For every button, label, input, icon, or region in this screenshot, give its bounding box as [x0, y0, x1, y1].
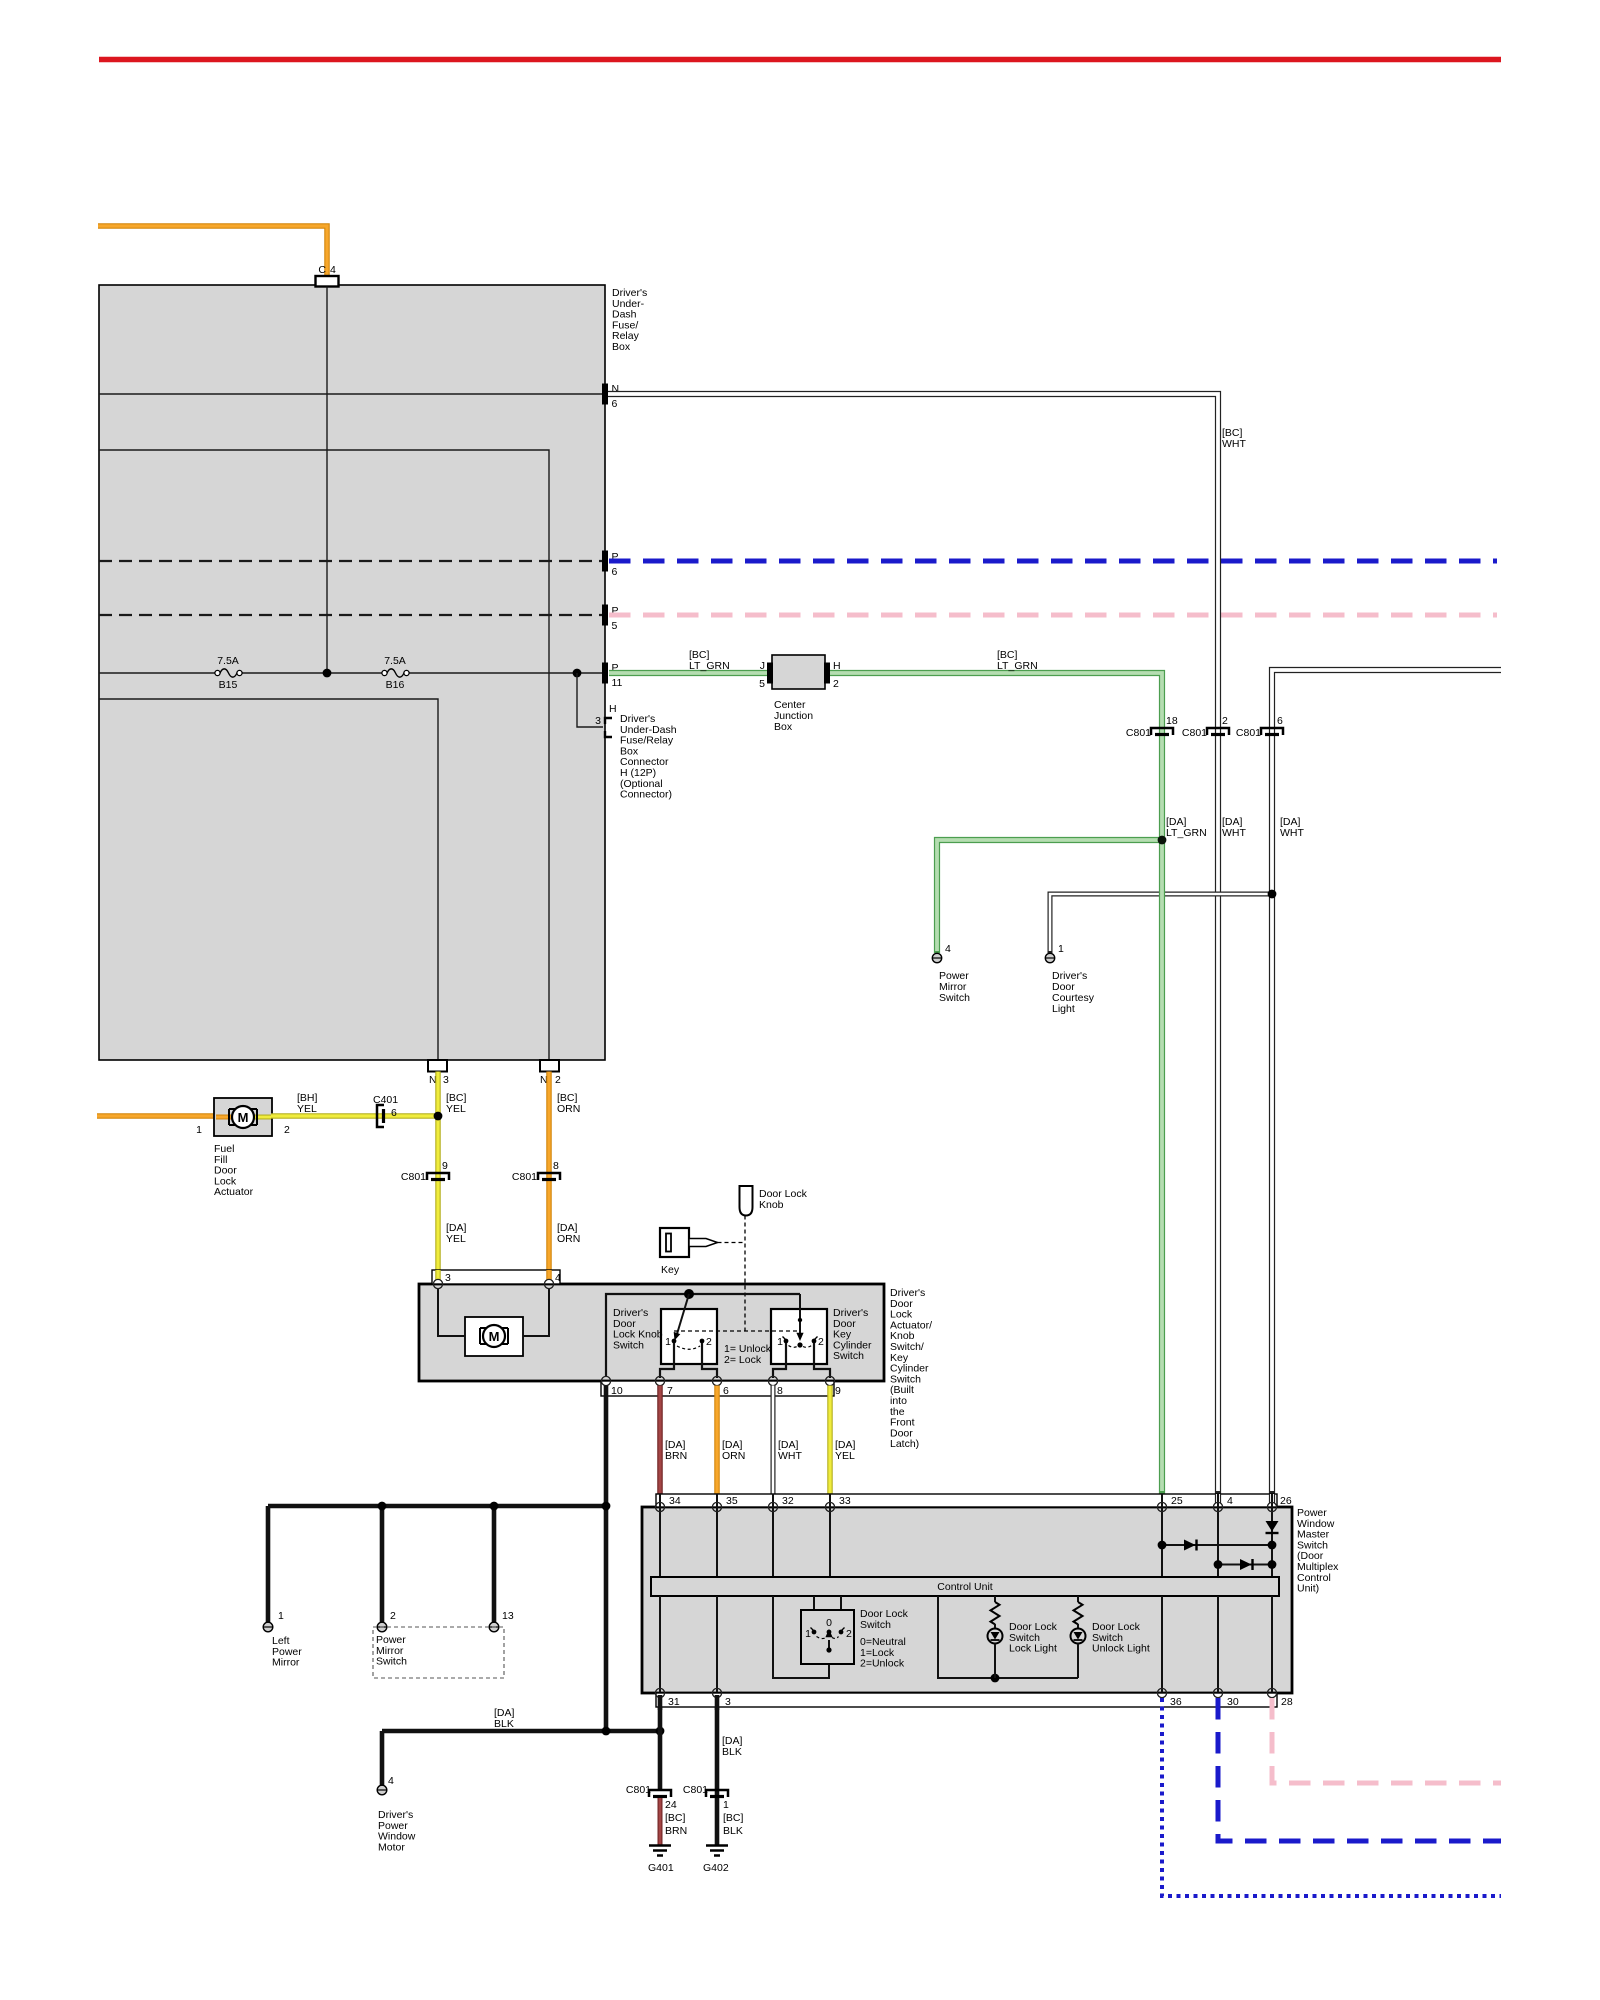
driver's door key cylinder switch [771, 1309, 827, 1364]
svg-text:3: 3 [595, 715, 601, 727]
svg-text:5: 5 [612, 620, 618, 632]
pin 33 circle [825, 1502, 834, 1511]
svg-text:B16: B16 [386, 679, 405, 691]
wire DA WHT from right (to pin 26) [1272, 670, 1501, 1494]
node fuse row branch [573, 669, 582, 678]
svg-text:6: 6 [1277, 715, 1283, 727]
pin 4 circle [1213, 1502, 1222, 1511]
svg-text:M: M [238, 1110, 249, 1125]
svg-text:BLK: BLK [723, 1825, 743, 1837]
connector N pin 6 (box edge) [602, 384, 608, 405]
node ground bus junctions [602, 1727, 611, 1736]
svg-text:Key: Key [661, 1264, 680, 1276]
svg-text:3: 3 [725, 1696, 731, 1708]
driver's door lock actuator assembly box [419, 1284, 884, 1381]
internal wires top pins to control unit [659, 1494, 661, 1577]
pin 6 circle [712, 1376, 721, 1385]
svg-text:2: 2 [833, 678, 839, 690]
wire pin31 to ground G401 [658, 1695, 663, 1789]
svg-text:9: 9 [442, 1160, 448, 1172]
connector C801 pin 24 [649, 1790, 671, 1797]
diode row 25 to 26 [1162, 1544, 1272, 1546]
pin 4 circle [544, 1279, 553, 1288]
actuator motor M [465, 1317, 523, 1356]
svg-text:G401: G401 [648, 1862, 674, 1874]
svg-text:0: 0 [826, 1617, 832, 1629]
terminal 2 power mirror switch [377, 1622, 387, 1632]
svg-text:9: 9 [835, 1385, 841, 1397]
svg-text:35: 35 [726, 1495, 738, 1507]
wire courtesy light branch (WHT) [1050, 894, 1272, 953]
mechanical linkage (dashed) [718, 1242, 746, 1244]
wire PNK dashed from pin 28 [1272, 1698, 1501, 1783]
connector P pin 11 (box edge) [602, 663, 608, 684]
wire DA BLK pin3 to ground G402 [715, 1695, 720, 1845]
svg-text:Connector): Connector) [620, 789, 672, 801]
wire DA BRN pin7 to master 34 [657, 1386, 663, 1495]
svg-text:3: 3 [445, 1272, 451, 1284]
svg-text:BLK: BLK [722, 1746, 742, 1758]
svg-text:C: C [318, 264, 326, 276]
wire BH YEL actuator to junction [271, 1113, 438, 1119]
actuator top connector strip [432, 1270, 560, 1284]
wire YEL into strip pin3 [435, 1270, 441, 1280]
svg-text:B15: B15 [219, 679, 238, 691]
control unit bar [651, 1577, 1279, 1596]
svg-text:J: J [760, 660, 765, 672]
svg-text:6: 6 [391, 1107, 397, 1119]
svg-text:4: 4 [555, 1272, 561, 1284]
connector P pin 6 (box edge) [602, 551, 608, 572]
page rule (red separator line) [99, 57, 1501, 63]
node mirror bus junctions [378, 1502, 387, 1511]
svg-text:YEL: YEL [835, 1450, 855, 1462]
svg-text:10: 10 [611, 1385, 623, 1397]
svg-text:H: H [609, 703, 617, 715]
svg-text:C401: C401 [373, 1094, 398, 1106]
connector C801 pin 2 [1207, 728, 1229, 735]
svg-text:C801: C801 [401, 1171, 426, 1183]
svg-text:YEL: YEL [446, 1233, 466, 1245]
wire bus row N [99, 393, 602, 395]
connector N pin 3 (box bottom) [428, 1060, 447, 1072]
pin 3 circle [712, 1688, 721, 1697]
svg-text:Unlock Light: Unlock Light [1092, 1643, 1150, 1655]
wire common bus to pin 10 [606, 1294, 800, 1377]
connector J pin 5 (CJB left) [767, 663, 773, 684]
diode row 4 to 26 [1218, 1564, 1272, 1566]
svg-text:M: M [489, 1329, 500, 1344]
svg-text:8: 8 [777, 1385, 783, 1397]
terminal 1 driver's door courtesy light [1045, 953, 1054, 962]
pin 25 circle [1157, 1502, 1166, 1511]
pin 32 circle [768, 1502, 777, 1511]
resistor (lock light) [994, 1596, 996, 1602]
fuel fill door lock actuator M [214, 1098, 272, 1136]
svg-text:WHT: WHT [1222, 827, 1246, 839]
svg-text:2: 2 [284, 1124, 290, 1136]
svg-text:2=Unlock: 2=Unlock [860, 1658, 905, 1670]
svg-text:[BC]: [BC] [723, 1812, 744, 1824]
svg-text:Switch: Switch [613, 1339, 644, 1351]
svg-text:2: 2 [1222, 715, 1228, 727]
wire BLU dashed from pin 30 [1218, 1698, 1501, 1841]
node YEL junction [434, 1112, 443, 1121]
svg-text:LT_GRN: LT_GRN [997, 660, 1038, 672]
wire DA WHT pin8 to master 32 [771, 1386, 776, 1495]
svg-text:28: 28 [1281, 1696, 1293, 1708]
svg-text:6: 6 [723, 1385, 729, 1397]
wire BLK bus to mirrors [268, 1504, 608, 1509]
svg-text:WHT: WHT [1280, 827, 1304, 839]
wire BC LT_GRN from P11 to CJB [609, 670, 768, 676]
svg-text:30: 30 [1227, 1696, 1239, 1708]
svg-text:1: 1 [196, 1124, 202, 1136]
terminal 4 driver's power window motor [377, 1785, 387, 1795]
wire LT_GRN branch to power mirror switch [937, 840, 1162, 953]
svg-text:ORN: ORN [557, 1103, 580, 1115]
svg-text:2: 2 [846, 1628, 852, 1640]
wire BC BRN to ground [658, 1798, 663, 1845]
connector C801 pin 1 [706, 1790, 728, 1797]
internal wires control unit to bottom pins [659, 1596, 661, 1693]
wire WHT into strip pin4 [1215, 1494, 1221, 1503]
svg-text:34: 34 [669, 1495, 681, 1507]
pin 8 circle [768, 1376, 777, 1385]
diode D1 (pin 26 vertical) [1266, 1521, 1279, 1532]
svg-text:Box: Box [612, 341, 631, 353]
svg-text:33: 33 [839, 1495, 851, 1507]
svg-text:4: 4 [945, 943, 951, 955]
pin 3 circle [433, 1279, 442, 1288]
pin 10 circle [601, 1376, 610, 1385]
resistor (unlock light) [1077, 1596, 1079, 1602]
svg-text:Switch: Switch [833, 1350, 864, 1362]
svg-text:LT_GRN: LT_GRN [1166, 827, 1207, 839]
svg-text:Switch: Switch [376, 1656, 407, 1668]
node knob lever junction [684, 1289, 694, 1299]
svg-text:1: 1 [723, 1799, 729, 1811]
svg-text:LT_GRN: LT_GRN [689, 660, 730, 672]
door lock knob symbol [740, 1186, 753, 1216]
svg-text:YEL: YEL [446, 1103, 466, 1115]
svg-text:BRN: BRN [665, 1825, 687, 1837]
svg-text:26: 26 [1280, 1495, 1292, 1507]
connector C401 pin 6 [377, 1105, 384, 1127]
pin 36 circle [1157, 1688, 1166, 1697]
svg-text:31: 31 [668, 1696, 680, 1708]
mechanical linkage dashed (knob rod) [744, 1216, 746, 1332]
wire BLK pin3 through strip [715, 1695, 720, 1710]
svg-text:6: 6 [612, 566, 618, 578]
svg-text:YEL: YEL [297, 1103, 317, 1115]
svg-text:Light: Light [1052, 1003, 1075, 1015]
master bottom connector strip [656, 1693, 1277, 1707]
wire BC WHT from N6 [608, 394, 1218, 1494]
connector C801 pin 6 [1261, 728, 1283, 735]
svg-text:Control Unit: Control Unit [937, 1581, 993, 1593]
wire internal bus 1 [99, 450, 549, 1060]
svg-text:Unit): Unit) [1297, 1583, 1319, 1595]
svg-text:C801: C801 [1236, 727, 1261, 739]
node LT_GRN branch junction [1158, 836, 1167, 845]
svg-text:WHT: WHT [778, 1450, 802, 1462]
svg-text:2: 2 [818, 1336, 824, 1348]
svg-text:4: 4 [330, 264, 336, 276]
svg-text:6: 6 [612, 398, 618, 410]
ground G402 [706, 1846, 728, 1856]
wire internal bus 2 [99, 699, 438, 1060]
svg-text:C801: C801 [1126, 727, 1151, 739]
wire BC YEL from N3 [435, 1072, 441, 1281]
svg-text:18: 18 [1166, 715, 1178, 727]
driver's door lock knob switch [661, 1309, 717, 1364]
svg-text:WHT: WHT [1222, 438, 1246, 450]
pin 26 circle [1267, 1502, 1276, 1511]
pin 28 circle [1267, 1688, 1276, 1697]
connector C801 pin 9 [427, 1173, 449, 1180]
svg-text:C801: C801 [512, 1171, 537, 1183]
LED door lock switch lock light [988, 1629, 1003, 1644]
svg-text:11: 11 [612, 677, 623, 689]
svg-text:1: 1 [805, 1628, 811, 1640]
Driver's Under-Dash Fuse/Relay Box [99, 285, 605, 1060]
door lock switch [801, 1610, 854, 1664]
svg-text:G402: G402 [703, 1862, 729, 1874]
wire dashed internal P5 [99, 614, 602, 616]
svg-text:1: 1 [665, 1336, 671, 1348]
power mirror switch dashed outline [373, 1627, 504, 1678]
svg-text:BRN: BRN [665, 1450, 687, 1462]
actuator bottom connector strip [601, 1381, 834, 1396]
wire BC ORN from N2 [546, 1072, 552, 1281]
wire DA BLK pin10 down [604, 1386, 609, 1732]
svg-text:32: 32 [782, 1495, 794, 1507]
connector C-4 [316, 276, 339, 287]
door lock switch wiring [773, 1596, 829, 1678]
terminal 1 left power mirror [263, 1622, 273, 1632]
svg-text:1: 1 [1058, 943, 1064, 955]
wire ORN feed to C-4 [98, 226, 327, 277]
svg-text:Lock Light: Lock Light [1009, 1643, 1057, 1655]
power window master switch box [642, 1507, 1292, 1693]
pin 7 circle [655, 1376, 664, 1385]
svg-text:C801: C801 [1182, 727, 1207, 739]
svg-text:24: 24 [665, 1799, 677, 1811]
door lock switch light circuit [938, 1596, 1078, 1678]
svg-text:13: 13 [502, 1610, 514, 1622]
ground G401 [649, 1846, 671, 1856]
svg-text:Latch): Latch) [890, 1438, 919, 1450]
svg-text:3: 3 [443, 1074, 449, 1086]
svg-text:7.5A: 7.5A [217, 655, 239, 667]
wire BLU dashed from P6 [609, 559, 1497, 564]
svg-text:7.5A: 7.5A [384, 655, 406, 667]
master top connector strip [656, 1494, 1277, 1507]
svg-text:7: 7 [667, 1385, 673, 1397]
connector H pin 3 (optional, bracket) [605, 718, 612, 737]
svg-text:25: 25 [1171, 1495, 1183, 1507]
svg-text:ORN: ORN [557, 1233, 580, 1245]
svg-text:C801: C801 [683, 1784, 708, 1796]
svg-text:Box: Box [774, 721, 793, 733]
wire ORN feed to fuel fill actuator [97, 1113, 216, 1119]
fuse B15 7.5A [215, 670, 220, 675]
svg-text:5: 5 [759, 678, 765, 690]
node courtesy/WHT junction [1268, 890, 1277, 899]
svg-text:2: 2 [390, 1610, 396, 1622]
svg-text:36: 36 [1170, 1696, 1182, 1708]
pin 34 circle [655, 1502, 664, 1511]
svg-text:Mirror: Mirror [272, 1657, 300, 1669]
svg-text:Switch: Switch [939, 992, 970, 1004]
wire dashed internal P6 [99, 560, 602, 562]
wire ORN into strip pin4 [546, 1270, 552, 1280]
connector C801 pin 8 [538, 1173, 560, 1180]
svg-text:1: 1 [777, 1336, 783, 1348]
connector N pin 2 (box bottom) [540, 1060, 559, 1072]
connector P pin 5 (box edge) [602, 605, 608, 626]
wire DA ORN pin6 to master 35 [714, 1386, 720, 1495]
connector H pin 2 (CJB right) [824, 663, 830, 684]
wire BLU dotted from pin 36 [1162, 1698, 1501, 1896]
svg-text:Switch: Switch [860, 1619, 891, 1631]
svg-text:Motor: Motor [378, 1841, 405, 1853]
svg-text:[BC]: [BC] [665, 1812, 686, 1824]
terminal 4 power mirror switch [932, 953, 941, 962]
wire branch to optional connector H [577, 673, 603, 727]
svg-text:1: 1 [278, 1610, 284, 1622]
svg-text:ORN: ORN [722, 1450, 745, 1462]
wire from C-4 into box [326, 287, 328, 674]
pin 30 circle [1213, 1688, 1222, 1697]
wire WHT into strip pin26 [1269, 1494, 1275, 1503]
fuse B16 7.5A [382, 670, 387, 675]
key symbol [660, 1228, 689, 1257]
svg-text:Knob: Knob [759, 1199, 784, 1211]
wire fuse row [99, 672, 217, 674]
wire BC LT_GRN from CJB to master switch pin 25 [830, 673, 1162, 1494]
svg-text:2= Lock: 2= Lock [724, 1354, 762, 1366]
svg-text:2: 2 [555, 1074, 561, 1086]
svg-text:BLK: BLK [494, 1718, 514, 1730]
svg-text:C801: C801 [626, 1784, 651, 1796]
terminal 13 power mirror switch [489, 1622, 499, 1632]
pin 9 circle [825, 1376, 834, 1385]
wire PNK dashed from P5 [609, 613, 1497, 618]
wire DA YEL pin9 to master 33 [827, 1386, 833, 1495]
node C4/fuse junction [323, 669, 332, 678]
svg-text:4: 4 [388, 1775, 394, 1787]
pin 35 circle [712, 1502, 721, 1511]
wire BLK bus to grounds [382, 1729, 660, 1734]
connector C801 pin 18 [1151, 728, 1173, 735]
svg-text:Actuator: Actuator [214, 1186, 254, 1198]
Center Junction Box [772, 655, 825, 689]
svg-text:8: 8 [553, 1160, 559, 1172]
svg-text:2: 2 [706, 1336, 712, 1348]
svg-text:4: 4 [1227, 1495, 1233, 1507]
pin 31 circle [655, 1688, 664, 1697]
wire BLK pin31 through strip [658, 1695, 663, 1710]
LED door lock switch unlock light [1071, 1629, 1086, 1644]
